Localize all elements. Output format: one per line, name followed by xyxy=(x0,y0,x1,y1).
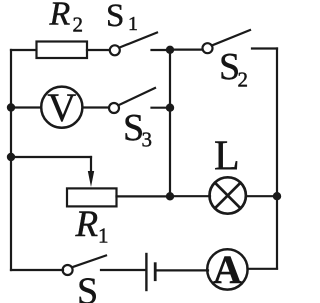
svg-text:A: A xyxy=(213,247,242,292)
wire left node to wiper corner xyxy=(11,156,91,158)
svg-text:3: 3 xyxy=(142,128,153,152)
ammeter U-A xyxy=(207,249,247,289)
svg-text:1: 1 xyxy=(128,13,138,35)
wire voltmeter to S3 xyxy=(83,106,109,108)
wire ammeter to bottom-right corner xyxy=(248,268,278,270)
wire S3 fixed contact to node xyxy=(152,107,171,109)
switch S xyxy=(63,265,73,275)
wire bottom-left to switch S xyxy=(11,269,63,271)
resistor R2 xyxy=(37,42,88,59)
switch S3 xyxy=(109,103,119,113)
wire R2 to S1 xyxy=(87,49,109,51)
wire wiper vertical xyxy=(90,157,92,173)
node middle voltmeter junction xyxy=(166,104,174,112)
svg-text:2: 2 xyxy=(238,67,249,91)
wire left node to voltmeter xyxy=(11,106,41,108)
node left wiper junction xyxy=(7,153,15,161)
lamp L xyxy=(210,177,246,213)
wire S1 fixed contact to node xyxy=(152,49,171,51)
svg-text:S: S xyxy=(77,271,98,303)
wire node to lamp xyxy=(170,195,210,197)
svg-text:1: 1 xyxy=(98,223,109,247)
svg-text:R: R xyxy=(75,204,99,245)
rheostat R1 xyxy=(67,188,117,206)
wire node to S2 xyxy=(170,48,202,50)
wire right rail xyxy=(276,49,278,269)
wire middle rail xyxy=(169,50,171,196)
wire R1 to middle node xyxy=(117,195,171,197)
svg-text:R: R xyxy=(49,0,71,32)
voltmeter U-V xyxy=(41,87,82,128)
wire S fixed contact to battery xyxy=(101,269,145,271)
rheostat wiper arrowhead xyxy=(88,171,94,187)
node A top middle junction xyxy=(166,46,174,54)
svg-text:2: 2 xyxy=(73,13,84,37)
wire lamp to right node xyxy=(246,195,277,197)
switch S1 xyxy=(110,45,120,55)
wire top-left to R2 xyxy=(11,49,36,51)
node left voltmeter junction xyxy=(7,103,15,111)
svg-text:S: S xyxy=(106,0,124,34)
wire S2 fixed contact to right corner xyxy=(252,47,277,49)
svg-text:L: L xyxy=(214,134,240,180)
battery cell xyxy=(145,254,147,290)
node right lamp junction xyxy=(273,192,281,200)
switch S2 xyxy=(203,43,213,53)
node middle lamp junction xyxy=(166,192,174,200)
svg-text:V: V xyxy=(47,85,76,130)
wire battery to ammeter xyxy=(157,269,209,271)
wire left rail xyxy=(10,50,12,270)
